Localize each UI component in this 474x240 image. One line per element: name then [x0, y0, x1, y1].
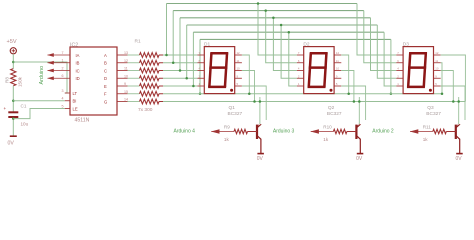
wire bus line 5 drop to D3: [384, 32, 396, 86]
svg-text:BI: BI: [73, 99, 77, 104]
bus line 3: [180, 17, 371, 19]
wire +5V to R8: [12, 54, 14, 69]
wire segment row 5 R1 to D1: [163, 85, 198, 87]
svg-text:7: 7: [62, 51, 64, 55]
svg-text:1: 1: [62, 59, 64, 63]
transistor Q2 BC327: [327, 105, 360, 153]
riser wire row 1 to bus line 1: [166, 4, 168, 56]
svg-text:6: 6: [62, 74, 64, 78]
ground 0V (C1): [8, 136, 17, 146]
svg-text:R9: R9: [224, 124, 230, 129]
wire bus line 4 drop to D3: [377, 25, 396, 78]
junction R8/C1/BI node: [12, 100, 15, 103]
svg-text:11: 11: [336, 59, 339, 63]
svg-text:10u: 10u: [21, 122, 29, 127]
wire bus line 3 drop to D3: [371, 18, 397, 71]
svg-text:Q2: Q2: [328, 105, 335, 111]
svg-text:IB: IB: [76, 61, 80, 66]
wire node to IC pin 4 BI: [13, 100, 65, 102]
svg-text:10: 10: [124, 74, 128, 78]
junction row 3 riser: [179, 69, 182, 72]
net arrow Arduino 3: [273, 128, 334, 134]
ground 0V (Q3): [456, 154, 463, 162]
svg-text:4: 4: [62, 97, 64, 101]
svg-text:IA: IA: [76, 53, 80, 58]
svg-text:7x 300: 7x 300: [138, 107, 153, 113]
wire segment row 2 R1 to D1: [163, 62, 198, 64]
svg-text:1k: 1k: [423, 137, 429, 142]
resistor R10 1k: [323, 124, 347, 142]
wire D2 dp stub: [341, 86, 365, 120]
svg-text:R10: R10: [323, 124, 332, 129]
junction row 1 riser: [165, 54, 168, 57]
svg-text:13: 13: [124, 51, 128, 55]
ground 0V (Q2): [356, 154, 363, 162]
wire D2 pin row3 to segment G line: [341, 71, 354, 102]
svg-text:12: 12: [237, 51, 241, 55]
wire D2 pin row1 to segment F line: [341, 55, 348, 94]
wire bus line 1 drop to D3: [357, 4, 396, 56]
wire bus line 5 drop to D2: [289, 32, 297, 86]
wire D1 common to Q1 emitter: [259, 97, 261, 124]
wire C1 to ground: [12, 118, 14, 136]
svg-text:4511N: 4511N: [75, 118, 90, 124]
svg-text:D: D: [104, 76, 107, 81]
svg-text:11: 11: [124, 67, 128, 71]
svg-text:5: 5: [62, 104, 64, 108]
svg-text:150k: 150k: [18, 76, 23, 87]
svg-text:12: 12: [124, 59, 128, 63]
svg-text:0V: 0V: [356, 156, 363, 162]
svg-text:C: C: [104, 68, 107, 73]
power flag +5V: [7, 39, 17, 54]
IC2 output pins A-G with numbers: [104, 51, 128, 104]
svg-text:12: 12: [435, 51, 439, 55]
riser wire row 4 to bus line 4: [186, 25, 188, 78]
svg-text:R11: R11: [423, 124, 432, 129]
IC2 lower-left pins LT BI LE: [62, 89, 78, 112]
svg-text:10: 10: [237, 67, 241, 71]
riser wire row 5 to bus line 5: [192, 32, 194, 86]
svg-text:A: A: [104, 53, 107, 58]
net arrow Arduino input pin 1: [47, 59, 70, 65]
bus line 5: [193, 31, 384, 33]
bus line 6: [200, 38, 391, 40]
capacitor C1 10u: [4, 104, 29, 127]
wire segment row 1 R1 to D1: [163, 54, 198, 56]
svg-text:14: 14: [124, 98, 128, 102]
riser wire row 6 to bus line 6: [199, 39, 201, 93]
wire IC pin 5 LE to ground node: [13, 109, 65, 119]
svg-text:LE: LE: [73, 106, 78, 111]
segment G line (row 7): [163, 101, 465, 103]
svg-text:Arduino 2: Arduino 2: [372, 128, 394, 134]
net arrow Arduino 4: [174, 128, 235, 134]
display D3 7-segment: [396, 42, 440, 94]
display D1 7-segment: [198, 42, 242, 94]
svg-text:+5V: +5V: [7, 39, 17, 45]
wire bus line 6 drop to segment F line: [390, 39, 392, 93]
resistor R8 150k: [4, 69, 22, 87]
junction C1/LE wire: [12, 117, 15, 120]
svg-text:BC327: BC327: [327, 111, 342, 117]
bus line 1: [167, 3, 358, 5]
svg-text:R8: R8: [4, 77, 9, 83]
junction row 6 riser: [199, 93, 202, 96]
wire bus line 4 drop to D2: [281, 25, 297, 78]
svg-text:Arduino 3: Arduino 3: [273, 128, 295, 134]
svg-text:1k: 1k: [224, 137, 230, 142]
wire D3 pin row3 to segment G line: [441, 71, 454, 102]
svg-text:12: 12: [336, 51, 340, 55]
svg-text:F: F: [104, 92, 107, 97]
svg-text:10: 10: [435, 67, 439, 71]
resistor R11 1k: [423, 124, 447, 142]
wire bus line 3 drop to D2: [273, 18, 297, 71]
svg-text:0V: 0V: [456, 156, 463, 162]
svg-text:11: 11: [237, 59, 240, 63]
wire D3 pin row2 to segment F line end: [441, 63, 442, 94]
svg-text:2: 2: [62, 66, 64, 70]
wire +5V node to IC pin 3 LT: [13, 62, 67, 93]
wire D3 pin row1 to segment G line end: [441, 55, 466, 102]
junction row 2 riser: [172, 62, 175, 65]
svg-text:10: 10: [336, 67, 340, 71]
wire D1 pin row3 to segment G line: [242, 71, 255, 102]
junction row 5 riser: [192, 85, 195, 88]
svg-text:G: G: [104, 99, 107, 104]
IC2 input labels IA-ID: [76, 53, 80, 81]
svg-text:E: E: [104, 84, 107, 89]
svg-text:11: 11: [435, 59, 438, 63]
svg-text:R1: R1: [135, 39, 141, 45]
net arrow Arduino input pin 7: [47, 51, 70, 57]
wire D3 dp stub: [441, 86, 465, 120]
wire D1 pin row1 to segment F line: [242, 55, 249, 94]
transistor Q3 BC327: [426, 105, 459, 153]
net arrow Arduino input pin 2: [47, 66, 70, 72]
junction row 4 riser: [185, 77, 188, 80]
bus line 2: [173, 10, 364, 12]
svg-text:C1: C1: [21, 104, 27, 109]
svg-text:0V: 0V: [8, 141, 15, 147]
svg-text:1k: 1k: [323, 137, 329, 142]
wire bus line 1 drop to D2: [258, 4, 297, 56]
wire D3 common to Q3 emitter: [458, 97, 460, 124]
svg-text:BC327: BC327: [426, 111, 441, 117]
wire segment row 4 R1 to D1: [163, 77, 198, 79]
svg-text:+: +: [4, 106, 7, 111]
bus line 4: [187, 24, 378, 26]
resistor network R1 7x 300: [128, 39, 164, 114]
svg-text:Q1: Q1: [229, 105, 236, 111]
wire R8 to C1: [12, 86, 14, 112]
svg-text:3: 3: [62, 89, 64, 93]
wire bus line 2 drop to D3: [364, 11, 397, 63]
junction +5V branch: [12, 61, 15, 64]
svg-text:B: B: [104, 61, 107, 66]
svg-text:9: 9: [124, 82, 126, 86]
wire bus line 2 drop to D2: [266, 11, 297, 63]
transistor Q1 BC327: [228, 105, 261, 153]
wire D1 dp stub: [242, 86, 266, 120]
ground 0V (Q1): [257, 154, 264, 162]
svg-text:Arduino 4: Arduino 4: [174, 128, 196, 134]
svg-text:Q3: Q3: [427, 105, 434, 111]
svg-text:0V: 0V: [257, 156, 264, 162]
net arrow Arduino input pin 6: [47, 74, 70, 80]
riser wire row 2 to bus line 2: [172, 11, 174, 63]
svg-text:Arduino: Arduino: [39, 66, 45, 85]
op IC2 4511N box: [70, 43, 117, 124]
display D2 7-segment: [297, 42, 341, 94]
segment F line (row 6): [163, 93, 443, 95]
svg-text:IC2: IC2: [70, 43, 78, 49]
svg-text:IC: IC: [76, 68, 80, 73]
svg-text:BC327: BC327: [228, 111, 243, 117]
net arrow Arduino 2: [372, 128, 433, 134]
svg-text:15: 15: [124, 90, 128, 94]
svg-text:LT: LT: [73, 91, 78, 96]
wire D2 common to Q2 emitter: [358, 97, 360, 124]
resistor R9 1k: [224, 124, 248, 142]
svg-text:ID: ID: [76, 76, 80, 81]
riser wire row 3 to bus line 3: [179, 18, 181, 71]
wire segment row 3 R1 to D1: [163, 70, 198, 72]
